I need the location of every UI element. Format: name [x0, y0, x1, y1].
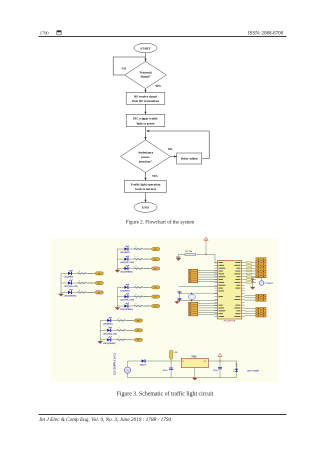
svg-text:LED(YELLOW): LED(YELLOW) [120, 262, 134, 264]
svg-text:light to green: light to green [137, 121, 155, 125]
svg-text:Delay added: Delay added [181, 157, 198, 161]
svg-text:LED(RED): LED(RED) [64, 277, 74, 279]
svg-text:RF receive signal: RF receive signal [134, 95, 157, 99]
svg-text:7805: 7805 [191, 357, 197, 359]
svg-text:PIC16F877A: PIC16F877A [224, 320, 236, 323]
svg-text:YES: YES [152, 174, 158, 178]
svg-text:LED(YELLOW): LED(YELLOW) [120, 300, 134, 302]
svg-text:LED(RED): LED(RED) [120, 252, 130, 254]
svg-text:ISSN: 2088-8708: ISSN: 2088-8708 [248, 32, 284, 37]
svg-text:LED(GREEN): LED(GREEN) [120, 272, 133, 274]
svg-text:passes: passes [141, 155, 150, 159]
svg-text:YES: YES [155, 84, 161, 88]
svg-text:PIC trigger traffic: PIC trigger traffic [133, 117, 158, 121]
svg-text:BUZ1: BUZ1 [268, 283, 274, 285]
svg-text:LED(RED): LED(RED) [120, 290, 130, 292]
svg-text:Figure 3. Schematic of traffic: Figure 3. Schematic of traffic light cir… [117, 391, 214, 398]
svg-text:NO: NO [122, 67, 127, 71]
svg-text:LED(RED): LED(RED) [103, 324, 113, 326]
svg-text:12V SUPPLY (AC): 12V SUPPLY (AC) [112, 353, 116, 375]
svg-text:1790: 1790 [40, 31, 50, 36]
svg-text:junction?: junction? [138, 160, 152, 164]
svg-text:LED POWER: LED POWER [247, 370, 260, 372]
svg-text:Traffic light operation: Traffic light operation [131, 183, 161, 187]
svg-text:NO: NO [168, 147, 173, 151]
svg-text:LED(GREEN): LED(GREEN) [120, 309, 133, 311]
svg-text:Ambulance: Ambulance [138, 151, 154, 155]
svg-text:Figure 2. Flowchart of the sys: Figure 2. Flowchart of the system [126, 218, 195, 225]
svg-text:100u: 100u [213, 370, 218, 372]
svg-text:END: END [142, 206, 149, 210]
svg-text:LED(YELLOW): LED(YELLOW) [64, 286, 78, 288]
svg-text:from RF transmitter: from RF transmitter [132, 99, 160, 103]
svg-text:back to normal: back to normal [135, 187, 156, 191]
svg-text:FUSE: FUSE [174, 352, 178, 354]
svg-text:Int J Elec & Comp Eng, Vol. 9,: Int J Elec & Comp Eng, Vol. 9, No. 3, Ju… [38, 416, 171, 423]
svg-text:470u: 470u [163, 369, 168, 372]
svg-text:LED(GREEN): LED(GREEN) [64, 296, 77, 298]
svg-text:R1 10k: R1 10k [186, 251, 193, 253]
svg-text:Signal?: Signal? [141, 75, 151, 79]
svg-text:START: START [140, 46, 151, 50]
svg-text:LED(GREEN): LED(GREEN) [103, 343, 116, 345]
svg-text:1N4007: 1N4007 [140, 363, 148, 366]
svg-text:LED(YELLOW): LED(YELLOW) [103, 333, 117, 335]
